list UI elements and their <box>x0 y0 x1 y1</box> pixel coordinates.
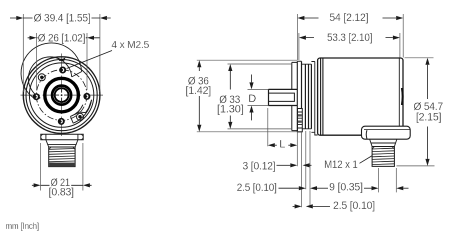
clamp ring outer arc upper-left <box>21 43 82 100</box>
dim 53.3: ext left <box>298 33 300 60</box>
flange top/bottom edge AB <box>297 61 301 131</box>
dim D36: ext top <box>197 59 297 61</box>
clamp hole upper-left <box>38 74 45 81</box>
connector housing lip <box>365 130 368 139</box>
flange plate D <box>308 64 310 129</box>
dim D: ext bottom <box>248 105 269 107</box>
dim D54.7: ext top <box>405 57 434 59</box>
bolt circle D26 dash-dot <box>36 70 87 121</box>
dim 54: line w arrows <box>304 17 396 19</box>
center mark cross <box>54 87 70 103</box>
dim D26: right arrow <box>86 37 100 39</box>
side thread lines <box>372 148 394 164</box>
dim D26: left arrow <box>28 37 38 39</box>
dim 2.5 left: line + arrows <box>279 187 299 189</box>
svg-text:Ø 26 [1.02]: Ø 26 [1.02] <box>38 32 85 44</box>
svg-text:L: L <box>279 139 285 151</box>
side thread chamfer <box>372 147 394 150</box>
screw top slot <box>62 69 64 72</box>
svg-text:4 x M2.5: 4 x M2.5 <box>111 39 149 51</box>
svg-text:M12 x 1: M12 x 1 <box>324 159 358 171</box>
clamp ring outer arc bottom-right <box>73 100 91 123</box>
face circle D33 <box>29 63 93 127</box>
center dot <box>61 94 63 96</box>
body left end lines <box>321 58 323 135</box>
clamp hole bottom-right <box>77 113 84 120</box>
dim 3: line + arrows <box>277 164 291 166</box>
front connector thread chamfer <box>49 147 75 150</box>
dim 53.3: ext right <box>399 33 401 58</box>
clamp tab bottom-right <box>70 100 91 123</box>
svg-text:D: D <box>248 93 256 105</box>
svg-text:53.3 [2.10]: 53.3 [2.10] <box>327 32 372 44</box>
clamp ring inner arc upper-left <box>28 57 71 98</box>
dim D33: vert arrow bottom <box>229 116 231 122</box>
dim D36: vert arrow top <box>198 67 200 71</box>
dim D54.7: ext bottom <box>397 165 435 167</box>
dim 54: ext left <box>296 14 298 60</box>
dim D39.4: left arrow <box>10 17 33 19</box>
outer circle D39.4 <box>23 57 100 134</box>
svg-text:[2.15]: [2.15] <box>416 112 442 124</box>
rim circle D36 <box>26 60 97 131</box>
screw right slot <box>86 95 88 98</box>
svg-text:3 [0.12]: 3 [0.12] <box>243 160 276 172</box>
center ring middle <box>52 86 71 105</box>
centerline vertical front view <box>61 54 63 137</box>
screw left slot <box>36 95 38 98</box>
dim D21: ext line right <box>82 143 84 191</box>
dim D36: ext bottom <box>197 131 297 133</box>
dim D26: ext line left <box>36 33 38 90</box>
dim D39.4: ext line left <box>22 14 24 92</box>
clamp ring end caps upper-left <box>36 72 81 100</box>
flange plate B <box>301 61 303 131</box>
label 4xM2.5 leader <box>67 51 112 69</box>
front connector tip band <box>49 163 75 167</box>
dim 53.3: line w arrows <box>306 37 393 39</box>
front connector thread body <box>49 147 75 167</box>
svg-text:9 [0.35]: 9 [0.35] <box>329 181 363 193</box>
svg-text:2.5 [0.10]: 2.5 [0.10] <box>333 200 375 212</box>
clamp hole dot bottom-right <box>78 115 81 118</box>
front connector thread lines <box>49 149 75 162</box>
connector housing top inner line <box>364 129 410 131</box>
flange top/bottom edge CDE <box>302 64 312 129</box>
synchro flange lip <box>292 62 298 130</box>
svg-text:[0.83]: [0.83] <box>49 187 74 199</box>
screw bottom <box>58 118 65 125</box>
connector housing <box>362 126 411 139</box>
screw top <box>59 67 66 74</box>
dim D39.4: right arrow <box>92 17 111 19</box>
svg-text:2.5 [0.10]: 2.5 [0.10] <box>237 182 277 194</box>
screw left <box>33 93 40 100</box>
center thick ring outer <box>45 78 79 112</box>
dim D54.7: vert arrow bottom <box>427 127 429 159</box>
svg-text:54 [2.12]: 54 [2.12] <box>329 12 368 24</box>
screw right <box>83 93 90 100</box>
dim 9: ext lines <box>379 168 397 192</box>
flange plate C D33 <box>304 64 306 129</box>
dim D21: left arrow <box>32 184 50 186</box>
dim D36: vert arrow bottom <box>198 96 200 125</box>
dim D: arrow top <box>251 75 253 83</box>
flange clamp detail bottom <box>298 109 303 132</box>
front connector shoulder <box>46 140 78 147</box>
flange plate A D36 face <box>296 61 298 131</box>
dim D26: ext line right <box>86 33 88 90</box>
dim L: arrows <box>275 144 277 146</box>
flange plate E <box>310 64 312 129</box>
dim D: arrow bottom <box>251 113 253 121</box>
dim L: ext left <box>267 108 269 146</box>
dim 54: ext right <box>402 14 404 58</box>
dim D33: ext top <box>228 63 293 65</box>
dim D54.7: vert arrow top <box>427 65 429 99</box>
side thread body <box>372 147 394 167</box>
body outline <box>318 58 403 135</box>
svg-text:[1.30]: [1.30] <box>217 104 244 116</box>
clamp ring inner arc bottom-right <box>70 105 83 117</box>
label M12x1 leader <box>360 156 373 164</box>
dim D: ext top <box>248 88 269 90</box>
center ring inner bold <box>55 88 69 102</box>
body right seam <box>398 58 400 135</box>
dim 9: arrows <box>364 187 372 189</box>
rim index notch top <box>58 57 66 61</box>
front connector nut <box>41 134 83 140</box>
front connector nut chamfers <box>41 134 83 140</box>
svg-text:Ø 39.4 [1.55]: Ø 39.4 [1.55] <box>34 13 91 25</box>
dim D39.4: ext line right <box>99 14 101 92</box>
front connector nut flats <box>46 134 78 140</box>
svg-text:mm [Inch]: mm [Inch] <box>6 221 40 231</box>
flange ext lines below <box>297 131 301 207</box>
screw bottom slot <box>61 120 63 123</box>
connector neck <box>370 139 397 146</box>
dim D21: right arrow <box>71 184 91 186</box>
shaft outer <box>269 89 298 105</box>
flange plate F <box>311 62 317 136</box>
dim D21: ext line left <box>40 143 42 191</box>
clamp hole dot upper-left <box>40 76 43 79</box>
dim D33: vert arrow top <box>229 71 231 90</box>
dim 2.5 bottom: line + arrows <box>293 205 295 207</box>
svg-text:[1.42]: [1.42] <box>186 85 212 97</box>
dim D33: ext bottom <box>228 128 293 130</box>
body right face shading <box>401 88 404 105</box>
centerline horizontal front view <box>21 94 104 96</box>
shaft sleeve inner <box>269 93 295 101</box>
